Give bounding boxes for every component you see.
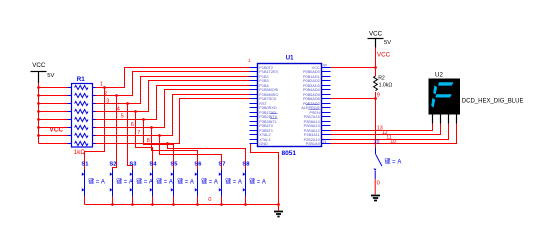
svg-text:S4: S4 bbox=[149, 162, 157, 168]
svg-text:20: 20 bbox=[374, 140, 380, 146]
svg-text:R1: R1 bbox=[77, 76, 85, 83]
svg-text:VCC: VCC bbox=[32, 62, 46, 69]
svg-text:键 = A: 键 = A bbox=[116, 178, 133, 186]
svg-text:S7: S7 bbox=[218, 162, 225, 168]
svg-text:1.0kΩ: 1.0kΩ bbox=[379, 83, 393, 89]
svg-text:键 = A: 键 = A bbox=[385, 157, 402, 165]
svg-text:S8: S8 bbox=[242, 162, 250, 168]
svg-text:S2: S2 bbox=[109, 162, 116, 168]
svg-text:40: 40 bbox=[323, 64, 327, 68]
svg-text:键 = A: 键 = A bbox=[225, 178, 242, 186]
svg-text:P2B7A15: P2B7A15 bbox=[304, 115, 320, 119]
svg-text:键 = A: 键 = A bbox=[249, 178, 266, 186]
svg-text:键 = A: 键 = A bbox=[156, 178, 173, 186]
svg-text:P0B2AD2: P0B2AD2 bbox=[303, 79, 320, 83]
svg-text:8051: 8051 bbox=[282, 150, 297, 157]
svg-text:VCC: VCC bbox=[377, 51, 391, 58]
svg-text:21: 21 bbox=[323, 140, 327, 144]
svg-text:P2B3A11: P2B3A11 bbox=[304, 133, 320, 137]
svg-text:6: 6 bbox=[131, 122, 134, 128]
svg-text:10: 10 bbox=[390, 139, 396, 145]
svg-text:0: 0 bbox=[208, 197, 211, 203]
svg-text:3: 3 bbox=[106, 98, 109, 104]
svg-text:P1B7SCK: P1B7SCK bbox=[259, 97, 277, 101]
svg-text:5: 5 bbox=[121, 113, 124, 119]
svg-text:S5: S5 bbox=[170, 162, 178, 168]
svg-text:P0B0AD0: P0B0AD0 bbox=[303, 70, 320, 74]
svg-text:S1: S1 bbox=[81, 162, 89, 168]
svg-text:DCD_HEX_DIG_BLUE: DCD_HEX_DIG_BLUE bbox=[462, 98, 524, 104]
svg-text:7: 7 bbox=[137, 130, 140, 136]
svg-text:键 = A: 键 = A bbox=[88, 178, 105, 186]
svg-text:R2: R2 bbox=[378, 76, 385, 82]
svg-text:VCC: VCC bbox=[369, 31, 383, 38]
svg-text:XTAL2: XTAL2 bbox=[259, 133, 270, 137]
svg-text:P1B1T2EX: P1B1T2EX bbox=[259, 70, 278, 74]
svg-text:S6: S6 bbox=[194, 162, 202, 168]
svg-text:P2B5A13: P2B5A13 bbox=[304, 124, 320, 128]
svg-text:GND: GND bbox=[259, 142, 268, 146]
svg-text:键 = A: 键 = A bbox=[177, 178, 194, 186]
svg-text:VCC: VCC bbox=[50, 127, 64, 134]
svg-text:U2: U2 bbox=[435, 71, 443, 78]
svg-text:8: 8 bbox=[147, 138, 150, 144]
svg-text:5V: 5V bbox=[384, 40, 391, 46]
svg-text:键 = A: 键 = A bbox=[136, 178, 153, 186]
svg-text:P2B1A9: P2B1A9 bbox=[306, 142, 320, 146]
svg-text:4: 4 bbox=[117, 107, 120, 113]
svg-text:1kΩ: 1kΩ bbox=[74, 149, 86, 156]
svg-text:5V: 5V bbox=[47, 73, 54, 79]
svg-text:1: 1 bbox=[248, 58, 251, 63]
svg-text:0: 0 bbox=[377, 180, 380, 186]
svg-text:P0B6AD6: P0B6AD6 bbox=[303, 97, 320, 101]
svg-text:P0B4AD4: P0B4AD4 bbox=[303, 88, 320, 92]
svg-text:1: 1 bbox=[100, 81, 103, 87]
svg-text:P1B3: P1B3 bbox=[259, 79, 268, 83]
svg-text:U1: U1 bbox=[286, 56, 294, 62]
svg-text:9: 9 bbox=[377, 93, 380, 99]
svg-text:P3B0RXD: P3B0RXD bbox=[259, 106, 277, 110]
svg-text:键 = A: 键 = A bbox=[201, 178, 218, 186]
svg-text:S3: S3 bbox=[129, 162, 137, 168]
svg-text:P3B4T0: P3B4T0 bbox=[259, 124, 273, 128]
svg-text:P1B5MOSI: P1B5MOSI bbox=[259, 88, 278, 92]
